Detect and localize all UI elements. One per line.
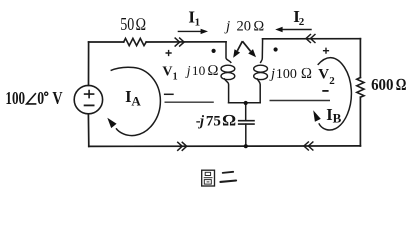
svg-text:100: 100 [276,67,297,82]
voltage source minus sign [85,104,94,106]
label voltage V2 [318,66,335,87]
current arrow I2 (points left) [275,27,312,32]
current arrow I1 (points right) [178,29,208,34]
inductor L1 bottom lead [225,79,229,103]
polarity long bar under V1 [165,101,214,103]
wire transformer bottom bar [229,102,261,104]
label 600 ohm [371,75,406,94]
mesh current loop IA arc [111,67,161,135]
label current I2 [293,7,305,28]
wire junction to capacitor [245,103,247,120]
wire capacitor to bottom [245,124,247,146]
label current I1 [188,8,200,29]
chevron marker top-left wire [175,38,185,47]
node junction bottom wire [244,144,248,148]
inductor L1 coil loop a [221,65,235,72]
label mesh current IA [125,87,141,108]
svg-text:1: 1 [173,71,178,82]
svg-text:j: j [198,113,205,129]
svg-text:Ω: Ω [396,75,406,94]
svg-text:600: 600 [371,75,393,94]
label voltage V1 [162,65,177,83]
svg-text:Ω: Ω [301,65,312,82]
wire top-right horizontal segment [263,38,361,40]
svg-text:Ω: Ω [135,14,146,34]
polarity minus sign V2 [322,90,328,92]
polarity long bar under V2 [270,100,331,102]
wire right vertical upper [359,39,361,78]
label j20 ohm [224,19,265,35]
label mesh current IB [326,105,341,126]
inductor L1 coil loop b [221,73,235,80]
wire top segment resistor to left coil [146,41,226,43]
mutual inductance coupling arrow j20ohm [233,41,256,58]
svg-text:0: 0 [37,88,44,108]
wire left vertical lower (source to bottom) [87,114,89,146]
mesh current loop IB arc [318,58,352,130]
svg-text:V: V [52,88,62,108]
label source value 100 angle 0 deg V [5,88,62,108]
resistor R2 600ohm zigzag [357,78,364,98]
svg-text:20: 20 [237,19,252,35]
wire top-left horizontal segment [89,41,124,43]
node junction transformer bottom [244,101,248,105]
chevron marker bottom-left wire [177,142,187,151]
svg-text:Ω: Ω [253,19,264,35]
svg-text:B: B [333,111,342,126]
mesh current loop IA arrowhead [107,118,116,128]
caption figure-2 CJK char tu (drawn) [202,170,215,186]
polarity minus sign V1 [164,93,174,95]
label 50 ohm [120,14,146,34]
inductor L2 coil loop b [254,73,268,80]
node dot polarity left coil [212,49,216,53]
label angle symbol (drawn) [27,93,37,104]
svg-text:2: 2 [329,75,335,87]
svg-text:V: V [162,65,172,80]
svg-text:75: 75 [206,113,221,129]
polarity plus sign V2 [323,48,329,54]
label j10 ohm [185,63,219,79]
resistor R1 50ohm zigzag [124,38,147,45]
label -j75 ohm [196,112,236,129]
node dot polarity right coil [274,47,278,51]
chevron marker bottom-right wire [304,142,314,151]
wire bottom horizontal [89,145,361,148]
svg-text:100: 100 [5,88,25,108]
svg-text:V: V [318,66,329,82]
svg-text:Ω: Ω [207,63,218,79]
voltage source VS circle [74,85,102,113]
label degree symbol (drawn) [45,92,48,95]
inductor L2 coil loop a [254,65,268,72]
mesh current loop IB arrowhead [313,110,321,122]
svg-text:50: 50 [120,14,134,34]
capacitor C1 bottom plate [239,123,254,125]
chevron marker top-right wire [306,34,316,43]
wire left vertical upper (corner to source) [88,42,90,85]
inductor L2 top lead [261,39,263,63]
svg-text:Ω: Ω [222,112,235,129]
caption figure-2 CJK char er (drawn) [220,172,236,182]
svg-text:2: 2 [299,16,305,28]
polarity plus sign V1 [166,50,172,56]
inductor L2 bottom lead [257,79,260,103]
svg-text:A: A [131,93,141,108]
inductor L1 top lead [226,42,231,63]
capacitor C1 top plate [239,120,254,122]
voltage source plus sign [85,91,94,98]
svg-text:1: 1 [195,17,201,29]
label j100 ohm [269,65,312,82]
wire right vertical lower [359,97,361,146]
svg-text:10: 10 [192,63,205,78]
